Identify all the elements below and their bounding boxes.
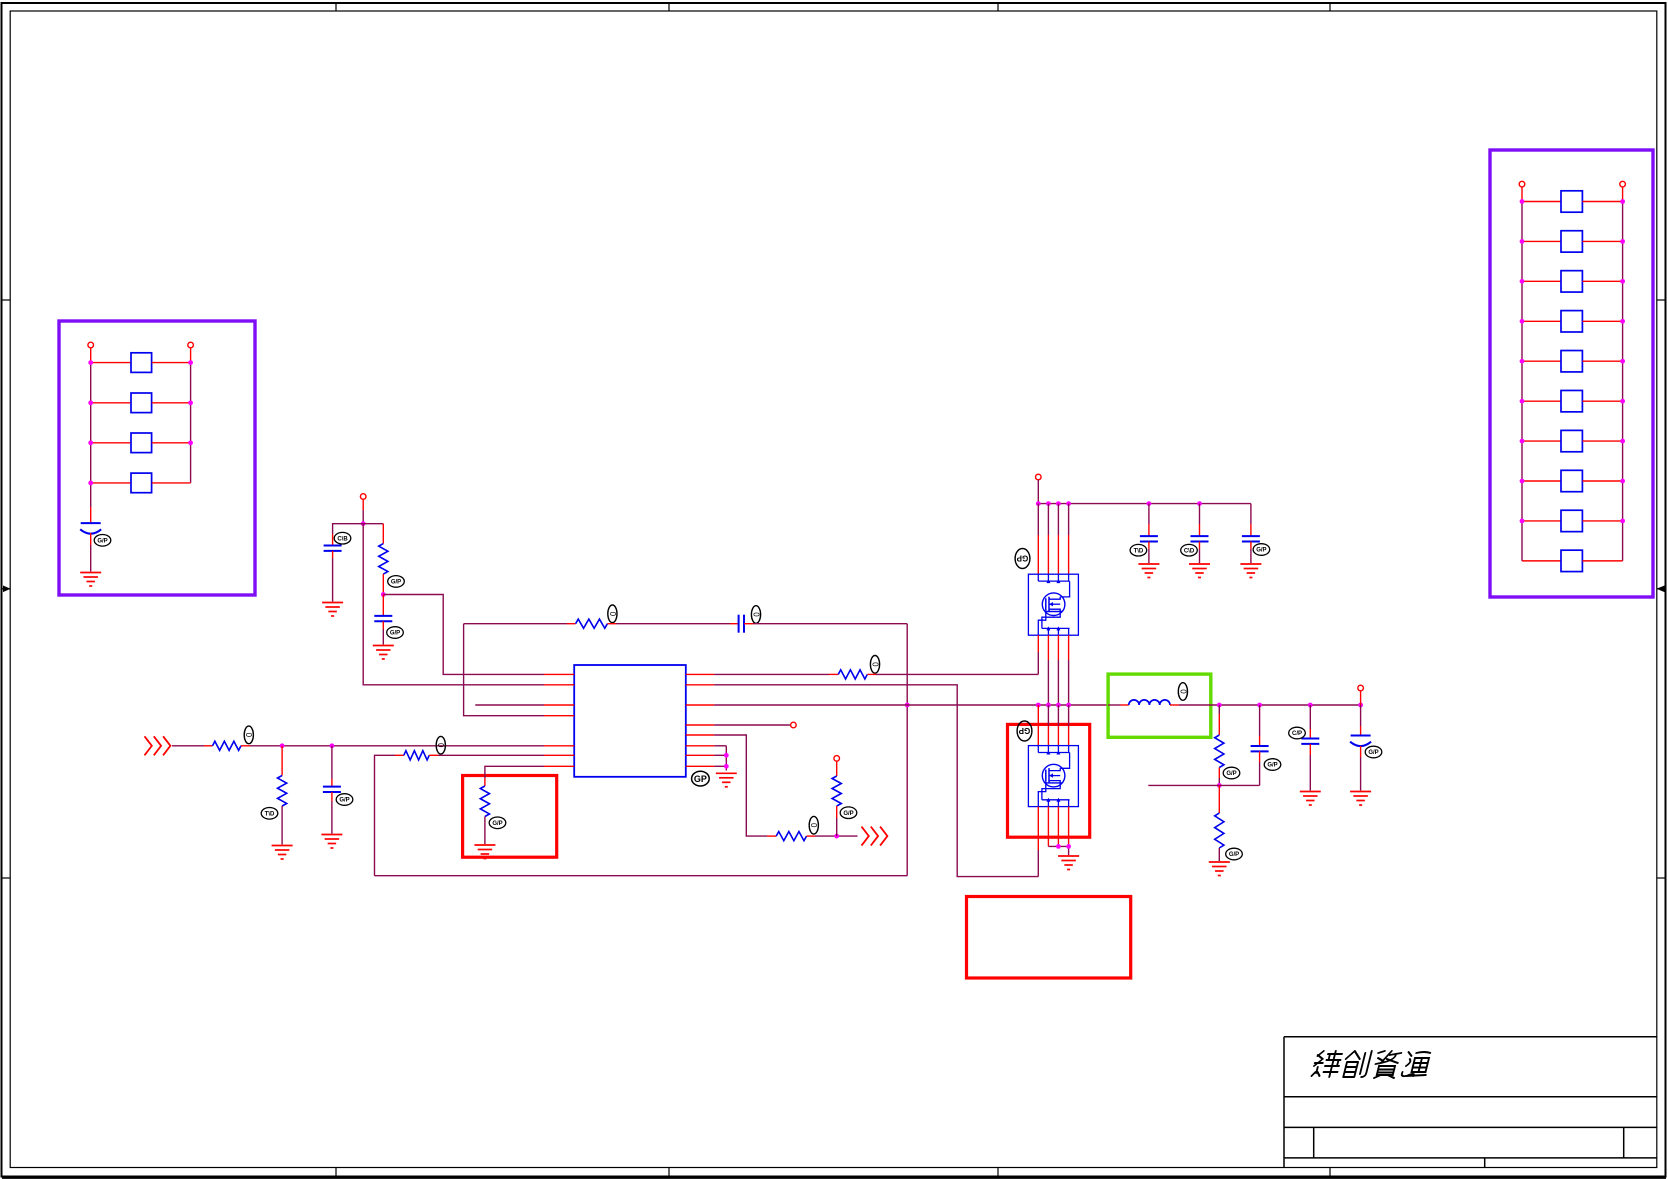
label C2 (334, 532, 351, 544)
wire R5 to ground (281, 806, 283, 845)
label L1 (1178, 683, 1187, 701)
svg-text:G/P: G/P (1229, 852, 1239, 858)
resistor RN4 (1522, 311, 1623, 332)
border center arrow left (2, 586, 11, 593)
capacitor C5 (323, 746, 341, 792)
wire phase to Q2 package (1038, 705, 1068, 746)
svg-text:T\D: T\D (1134, 548, 1144, 554)
junction bus C7 (1197, 501, 1202, 506)
label R6 (436, 736, 445, 754)
label C6 (1130, 544, 1147, 556)
svg-text:0: 0 (244, 733, 253, 738)
resistor RN1 (1522, 191, 1623, 212)
ground below C5 (321, 835, 342, 849)
wire C4 to feedback vertical (744, 623, 907, 625)
capacitor C9 feedforward (1251, 705, 1269, 785)
output chevrons (862, 827, 888, 846)
wire R6 to U1 pin6 (429, 754, 544, 756)
resistor RN7 (1522, 430, 1623, 451)
wire left rail of resistor pack (90, 348, 92, 523)
junction Q2 source bus A (1056, 844, 1061, 849)
capacitor C10 output (1301, 705, 1319, 791)
resistor R12 (1215, 813, 1224, 848)
wire bus to C6 (1148, 504, 1150, 536)
wire R9 to output chevrons (807, 835, 858, 837)
transistor Q1 (1028, 574, 1078, 635)
label R9 (809, 816, 818, 834)
svg-text:G/P: G/P (843, 811, 853, 817)
label R8 (870, 656, 879, 674)
inductor L1 (1129, 700, 1170, 705)
svg-text:0: 0 (870, 662, 879, 667)
wire U1 pin5 to R9 (714, 735, 776, 836)
label Q2 designator (1017, 721, 1032, 741)
wire Q2 gate down to drive (1037, 807, 1039, 877)
junction dots rails of resistor pack 2 (1520, 199, 1625, 523)
purple highlight box P1 (59, 321, 255, 595)
wire input to R4 (172, 745, 213, 747)
transistor Q2 (1028, 746, 1078, 807)
svg-text:0: 0 (1178, 689, 1187, 694)
wire U1 pin4 to port (714, 724, 790, 726)
green highlight box H2 (1108, 674, 1211, 737)
wire P3 down to node (362, 499, 364, 523)
U1 right pin stubs (686, 674, 714, 766)
resistor RN2 (1522, 231, 1623, 252)
border center arrow right (1657, 586, 1666, 593)
wire R11 to sense node (1218, 768, 1220, 786)
wire C5 to ground (331, 792, 333, 834)
port P5 (834, 756, 840, 762)
wire right rail of resistor pack (190, 348, 192, 483)
wire R3 to C4 (607, 623, 738, 625)
node EN junction (361, 521, 366, 526)
wire R8 to Q1 gate (867, 673, 1038, 675)
junction R9-R10 node (834, 834, 839, 839)
junction bus Q1 drains (1036, 501, 1071, 506)
wire R12 to ground (1218, 848, 1220, 861)
wire U1 pin1 to R8 (714, 673, 838, 675)
label R4 (244, 726, 253, 744)
label C7 (1181, 544, 1198, 556)
label R10 G/P (840, 807, 857, 819)
wire R7 to ground (484, 817, 486, 845)
svg-text:C\B: C\B (337, 536, 348, 542)
resistor R4 (213, 741, 242, 750)
wire bus to Q1 package (1038, 504, 1068, 575)
resistor R8 (838, 670, 867, 679)
junction input node B (330, 743, 335, 748)
wire right rail of resistor pack 2 (1622, 187, 1624, 561)
ground below R7 (474, 845, 495, 859)
svg-text:GP: GP (1018, 726, 1030, 735)
resistor R3 (576, 619, 608, 628)
port J2 pin A (1519, 181, 1525, 187)
wire C1 to ground (90, 545, 92, 572)
resistor R11 (1215, 735, 1224, 768)
wire U1 pin3 phase net (714, 704, 1108, 706)
junction phase Q1 Q2 (1036, 703, 1071, 708)
label U1 GP (692, 771, 710, 786)
label C11 G/P (1365, 746, 1382, 758)
svg-text:C\D: C\D (1184, 548, 1195, 554)
wire comp horizontal left segment (464, 623, 576, 625)
port P7 VOUT (1358, 685, 1364, 691)
resistor RN8 (1522, 470, 1623, 491)
ground below C10 (1300, 792, 1321, 806)
resistor R9 (776, 832, 806, 841)
junction dots right rail (188, 360, 193, 445)
wire output to R11 (1218, 705, 1220, 735)
port P6 VIN (1036, 474, 1042, 480)
resistor R2 (379, 544, 388, 575)
junction input node A (280, 743, 285, 748)
resistor R7 (480, 786, 489, 817)
wire input power bus (1038, 503, 1251, 505)
ground below R5 (272, 846, 293, 860)
svg-text:GP: GP (1016, 554, 1028, 563)
capacitor C1 polarized (80, 523, 101, 545)
label R5 (261, 808, 278, 820)
wire C7 to ground (1199, 542, 1201, 564)
wire sense to R12 (1218, 785, 1220, 813)
ground below R12 (1209, 862, 1230, 876)
svg-text:0: 0 (809, 823, 818, 828)
U1 left pin stubs (544, 674, 574, 766)
capacitor C7 (1191, 536, 1209, 541)
capacitor C8 (1242, 536, 1260, 541)
wire loop corner to R6 (375, 755, 404, 875)
resistor R5 (278, 746, 287, 806)
resistor RN10 (1522, 550, 1623, 571)
wire bus to C7 (1199, 504, 1201, 536)
junction output C10 (1308, 703, 1313, 708)
wire feedback vertical (906, 624, 908, 876)
wire bus to C8 (1250, 504, 1252, 536)
purple highlight box P2 (1490, 150, 1653, 597)
svg-text:0: 0 (751, 612, 760, 617)
junction sense node (1217, 783, 1222, 788)
wire P5 to R10 (836, 761, 838, 776)
svg-text:0: 0 (436, 743, 445, 748)
svg-text:G/P: G/P (339, 798, 349, 804)
wire sense horizontal (1148, 784, 1259, 786)
wire Q2 sources to ground bus (1048, 807, 1068, 855)
svg-text:T\D: T\D (265, 812, 275, 818)
svg-text:G/P: G/P (391, 580, 401, 586)
wire inductor to output (1170, 704, 1361, 706)
junction dots left rail (88, 360, 93, 485)
svg-text:G/P: G/P (1267, 763, 1277, 769)
wire U1 pin2 to Q2 gate (714, 685, 1038, 877)
resistor R6 (404, 751, 429, 760)
capacitor C3 (374, 595, 392, 622)
junction output C9 (1257, 703, 1262, 708)
ground below U1 (716, 773, 737, 787)
svg-text:C/P: C/P (1292, 731, 1302, 737)
wire P6 to bus (1037, 480, 1039, 504)
wire into inductor (1108, 704, 1129, 706)
port P3 enable (360, 494, 366, 500)
ground below Q2 (1058, 856, 1079, 870)
label Q1 designator (1015, 549, 1030, 569)
red highlight box H4 (967, 897, 1131, 979)
wire C8 to ground (1250, 542, 1252, 564)
wire U1 ground bus (714, 746, 726, 771)
label C9 G/P (1264, 759, 1281, 771)
red highlight box H3 (1008, 724, 1090, 837)
wire comp corner to U1 pin4 (464, 624, 544, 716)
wire P7 to output net (1360, 691, 1362, 705)
capacitor C11 bulk output (1350, 705, 1371, 791)
wire node to C2 branch (333, 524, 364, 545)
input chevrons (145, 736, 171, 755)
resistor RN3 (1522, 271, 1623, 292)
wire left rail of resistor pack 2 (1521, 187, 1523, 561)
label C1 G/P (94, 535, 111, 547)
label R3 (608, 605, 617, 623)
wire P3 node to U1 pin2 (363, 524, 544, 685)
wire divider node to U1 pin1 (383, 595, 544, 675)
junction bus C6 (1147, 501, 1152, 506)
resistor RN5 (1522, 351, 1623, 372)
resistor RN9 (1522, 510, 1623, 531)
resistor RP2 (91, 393, 191, 413)
label R12 G/P (1226, 848, 1243, 860)
wire U1 pin7 to R7 (485, 766, 544, 786)
wire C2 to ground (332, 551, 334, 602)
wire Q1 gate down (1037, 635, 1039, 674)
label C4 (751, 606, 760, 624)
wire loop bottom (375, 875, 908, 877)
ground below C7 (1189, 564, 1210, 578)
junction U1 ground stub B (724, 764, 729, 769)
label C8 (1253, 544, 1270, 556)
ground below C11 (1350, 792, 1371, 806)
svg-text:GP: GP (694, 774, 707, 784)
svg-text:G/P: G/P (492, 821, 502, 827)
wire R2 to divider node (382, 574, 384, 594)
port J2 pin B (1620, 181, 1626, 187)
resistor RP3 (91, 433, 191, 453)
resistor RP1 (91, 353, 191, 373)
svg-text:0: 0 (608, 612, 617, 617)
wire Q1 sources to phase node (1048, 635, 1068, 705)
junction Q2 source bus B (1066, 844, 1071, 849)
label R7 G/P (489, 817, 506, 829)
title block frame (1284, 1037, 1657, 1168)
ground below C2 (322, 603, 343, 617)
svg-text:G/P: G/P (97, 539, 107, 545)
title text company name (1311, 1051, 1432, 1078)
resistor RP4 (91, 473, 191, 493)
label C10 C/P (1289, 727, 1306, 739)
resistor R10 (832, 776, 841, 806)
label C3 G/P (387, 627, 404, 639)
junction output port (1358, 703, 1363, 708)
junction feedback vertical with output net (905, 703, 910, 708)
wire stub U1 pin3 left (475, 704, 544, 706)
capacitor C6 (1140, 536, 1158, 541)
ground below C1 (80, 573, 101, 587)
resistor RN6 (1522, 390, 1623, 411)
divider node junction (381, 592, 386, 597)
svg-text:G/P: G/P (1226, 771, 1236, 777)
port J1 pin B (188, 342, 194, 348)
svg-text:G/P: G/P (1368, 750, 1378, 756)
capacitor C4 (739, 615, 744, 633)
red highlight box H1 (463, 776, 557, 858)
wire R10 to node (836, 806, 838, 836)
wire C6 to ground (1148, 542, 1150, 564)
op-amp controller U1 (574, 665, 686, 777)
svg-text:G/P: G/P (390, 631, 400, 637)
ground below C3 (373, 646, 394, 660)
svg-text:G/P: G/P (1256, 548, 1266, 554)
label R2 G/P (388, 576, 405, 588)
port J1 pin A (88, 342, 94, 348)
wire R4 to U1 pin5 (241, 745, 544, 747)
capacitor C2 (324, 546, 342, 551)
label R11 G/P (1223, 767, 1240, 779)
junction output C8 (1217, 703, 1222, 708)
ground below C8 (1240, 564, 1261, 578)
ground below C6 (1138, 564, 1159, 578)
port P4 (791, 722, 797, 728)
wire node to R2 (363, 524, 383, 544)
label C5 G/P (336, 794, 353, 806)
junction U1 ground stub A (724, 753, 729, 758)
wire C3 to ground (382, 621, 384, 644)
